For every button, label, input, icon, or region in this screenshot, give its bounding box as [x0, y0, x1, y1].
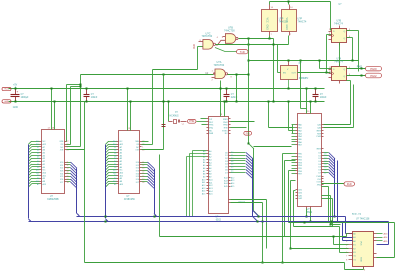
svg-text:A8: A8	[114, 177, 116, 180]
svg-text:A3: A3	[114, 157, 116, 160]
svg-text:A8: A8	[37, 177, 39, 180]
svg-text:/RES: /RES	[223, 119, 228, 121]
svg-text:A8: A8	[203, 173, 205, 176]
svg-text:U? 74HC138: U? 74HC138	[356, 219, 370, 221]
svg-text:D2: D2	[324, 158, 326, 160]
svg-text:PHI0: PHI0	[370, 67, 377, 71]
svg-text:A12: A12	[36, 143, 39, 146]
svg-text:D5: D5	[231, 166, 233, 168]
svg-text:A0: A0	[114, 166, 116, 169]
svg-text:A2: A2	[114, 160, 116, 163]
svg-text:R/W: R/W	[224, 127, 228, 129]
svg-text:GND: GND	[285, 25, 288, 31]
svg-text:RxD: RxD	[347, 183, 352, 186]
svg-text:1: 1	[67, 147, 68, 149]
svg-text:A15: A15	[202, 193, 205, 196]
svg-text:GND: GND	[265, 25, 268, 31]
svg-text:A7: A7	[114, 146, 116, 149]
svg-text:13: 13	[67, 168, 69, 170]
svg-text:D0: D0	[324, 152, 326, 154]
svg-text:A?: A?	[114, 183, 116, 186]
svg-text:17: 17	[67, 179, 69, 181]
svg-text:A13: A13	[231, 179, 234, 182]
svg-text:PHI2: PHI2	[189, 121, 195, 123]
svg-text:Q: Q	[343, 38, 345, 40]
svg-text:D6: D6	[231, 169, 233, 171]
svg-text:R/W: R/W	[317, 133, 321, 135]
svg-text:A5: A5	[203, 164, 205, 167]
svg-text:/WE: /WE	[135, 141, 139, 143]
svg-text:A14: A14	[36, 140, 39, 143]
svg-text:GND: GND	[4, 101, 9, 103]
svg-text:D2: D2	[231, 158, 233, 160]
svg-text:A13: A13	[36, 180, 39, 183]
svg-text:/RES: /RES	[316, 130, 321, 132]
svg-text:74HC74: 74HC74	[298, 21, 307, 24]
svg-text:18: 18	[142, 182, 144, 184]
svg-text:Q: Q	[343, 76, 345, 78]
svg-text:D1: D1	[231, 155, 233, 157]
svg-text:A3: A3	[203, 158, 205, 161]
svg-text:A12: A12	[231, 176, 234, 179]
svg-text:+5V: +5V	[13, 85, 18, 87]
svg-text:A11: A11	[36, 171, 39, 174]
svg-text:/IRQ: /IRQ	[317, 185, 322, 187]
svg-text:12: 12	[67, 165, 69, 167]
svg-text:1: 1	[142, 147, 143, 149]
svg-text:100nF: 100nF	[91, 97, 98, 99]
svg-text:D0: D0	[231, 152, 233, 154]
svg-text:A1: A1	[114, 163, 116, 166]
svg-text:/WE: /WE	[60, 141, 64, 143]
svg-text:A11: A11	[113, 171, 116, 174]
svg-text:PHI2: PHI2	[357, 67, 363, 69]
svg-text:A4: A4	[203, 161, 205, 164]
svg-text:74HCT00: 74HCT00	[214, 64, 225, 67]
svg-text:A1: A1	[37, 163, 39, 166]
svg-text:D5: D5	[324, 167, 326, 169]
svg-text:11: 11	[142, 162, 144, 164]
svg-text:17: 17	[142, 179, 144, 181]
svg-text:A5: A5	[114, 151, 116, 154]
svg-text:A2: A2	[203, 156, 205, 159]
svg-text:A10: A10	[113, 169, 116, 172]
svg-text:D7: D7	[231, 172, 233, 174]
svg-text:RDY: RDY	[209, 122, 214, 124]
svg-text:A1: A1	[203, 153, 205, 156]
svg-text:A6: A6	[114, 149, 116, 152]
svg-text:+: +	[17, 90, 19, 94]
svg-text:D3: D3	[324, 161, 326, 163]
svg-text:15: 15	[67, 173, 69, 175]
svg-text:A9: A9	[37, 174, 39, 177]
svg-text:A6: A6	[37, 149, 39, 152]
svg-text:12: 12	[142, 165, 144, 167]
svg-text:A9: A9	[203, 175, 205, 178]
svg-text:A14: A14	[113, 140, 116, 143]
svg-text:A7: A7	[203, 170, 205, 173]
svg-text:A2: A2	[37, 160, 39, 163]
svg-text:A13: A13	[113, 180, 116, 183]
svg-text:A5: A5	[37, 151, 39, 154]
svg-text:GND: GND	[359, 257, 361, 262]
svg-text:A4: A4	[114, 154, 116, 157]
svg-text:KM62256B: KM62256B	[47, 199, 59, 201]
svg-text:13: 13	[142, 168, 144, 170]
svg-text:D6: D6	[324, 169, 326, 171]
svg-text:74HCT00: 74HCT00	[202, 35, 213, 38]
svg-text:A10: A10	[202, 178, 205, 181]
svg-text:11: 11	[67, 162, 69, 164]
svg-text:D1: D1	[324, 155, 326, 157]
svg-text:VCC: VCC	[265, 18, 268, 23]
svg-text:100nF: 100nF	[320, 97, 327, 99]
svg-text:18: 18	[67, 182, 69, 184]
svg-text:SYNC: SYNC	[222, 130, 228, 132]
svg-text:D3: D3	[231, 161, 233, 163]
svg-text:A14: A14	[202, 190, 205, 193]
svg-text:TxD: TxD	[240, 50, 245, 54]
svg-text:AT28C256: AT28C256	[124, 198, 136, 201]
svg-text:HC49US: HC49US	[170, 116, 180, 118]
svg-text:A6: A6	[203, 167, 205, 170]
svg-text:A14: A14	[231, 182, 234, 185]
svg-text:16: 16	[142, 176, 144, 178]
svg-text:RxD: RxD	[194, 44, 196, 49]
svg-text:A12: A12	[202, 184, 205, 187]
svg-text:A10: A10	[36, 169, 39, 172]
svg-text:D7: D7	[324, 172, 326, 174]
svg-text:A7: A7	[37, 146, 39, 149]
svg-text:A4: A4	[37, 154, 39, 157]
svg-text:6522: 6522	[307, 212, 313, 214]
svg-text:A?: A?	[37, 183, 39, 186]
svg-text:D4: D4	[324, 164, 326, 166]
svg-text:A12: A12	[113, 143, 116, 146]
svg-text:GND: GND	[13, 107, 18, 109]
svg-text:/RES: /RES	[316, 148, 321, 150]
svg-text:15: 15	[142, 173, 144, 175]
svg-text:VCC: VCC	[359, 241, 361, 246]
svg-text:14: 14	[142, 170, 144, 172]
svg-text:14: 14	[67, 170, 69, 172]
svg-text:74HC00: 74HC00	[279, 21, 288, 24]
svg-text:1000µF: 1000µF	[21, 97, 29, 99]
svg-text:A3: A3	[37, 157, 39, 160]
svg-text:74HC74: 74HC74	[334, 23, 343, 26]
svg-text:A9: A9	[114, 174, 116, 177]
svg-text:A15: A15	[231, 185, 234, 188]
svg-text:Q: Q	[343, 31, 345, 33]
svg-text:/NMI: /NMI	[209, 133, 214, 135]
svg-text:Q: Q	[343, 69, 345, 71]
svg-text:A13: A13	[202, 187, 205, 190]
svg-text:A11: A11	[202, 181, 205, 184]
svg-text:D4: D4	[231, 164, 233, 166]
svg-text:A0: A0	[37, 166, 39, 169]
svg-text:16: 16	[67, 176, 69, 178]
svg-text:74HCT00: 74HCT00	[224, 30, 235, 33]
svg-text:VCC: VCC	[4, 89, 9, 91]
svg-text:/IRQ: /IRQ	[209, 127, 214, 129]
svg-text:PHI2: PHI2	[370, 74, 377, 78]
svg-text:74HC74: 74HC74	[334, 61, 343, 64]
svg-text:AD[0..15]: AD[0..15]	[352, 213, 362, 216]
